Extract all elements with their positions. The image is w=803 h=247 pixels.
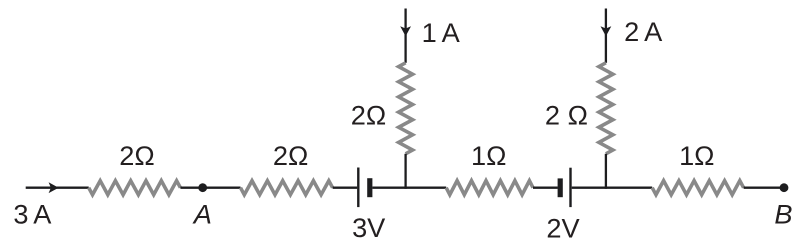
- wire input segment to R1: [26, 187, 89, 189]
- resistor R1 2Ω (horizontal zigzag): [89, 181, 181, 195]
- resistor R2 2Ω (horizontal zigzag): [241, 181, 333, 195]
- svg-text:3 A: 3 A: [13, 199, 52, 230]
- svg-text:3V: 3V: [352, 212, 386, 243]
- svg-text:A: A: [192, 199, 212, 230]
- wire V2 to R4 via branch 2 junction: [572, 187, 653, 189]
- node A junction dot: [198, 183, 207, 192]
- svg-text:2Ω: 2Ω: [351, 100, 386, 131]
- wire branch 2 resistor to main line: [605, 154, 607, 189]
- svg-text:2 Ω: 2 Ω: [545, 100, 588, 131]
- resistor R3 1Ω (horizontal zigzag): [446, 181, 533, 195]
- wire R4 to node B: [744, 187, 784, 189]
- wire branch 1 resistor to main line: [404, 154, 406, 189]
- wire R3 to battery V2: [533, 187, 558, 189]
- svg-text:B: B: [774, 199, 792, 230]
- current arrow 2 A (down-pointing arrowhead on branch 2): [601, 26, 612, 36]
- battery V2 2V positive long plate: [569, 168, 571, 207]
- svg-text:1 A: 1 A: [422, 17, 461, 48]
- resistor R4 1Ω (horizontal zigzag): [652, 181, 743, 195]
- svg-text:2 A: 2 A: [624, 16, 663, 47]
- svg-text:2Ω: 2Ω: [119, 140, 154, 171]
- resistor R5 2Ω branch 1 (vertical zigzag): [399, 63, 413, 154]
- wire branch 2 top segment: [605, 9, 607, 63]
- current arrow 1 A (down-pointing arrowhead on branch 1): [400, 26, 411, 36]
- wire branch 1 top segment: [404, 9, 406, 63]
- wire V1 to R3 via branch 1 junction: [372, 187, 446, 189]
- battery V1 3V positive long plate: [357, 168, 359, 208]
- battery V1 3V negative short thick plate: [367, 178, 372, 197]
- resistor R6 2Ω branch 2 (vertical zigzag): [599, 63, 613, 154]
- svg-text:1Ω: 1Ω: [679, 140, 714, 171]
- wire R1 to R2 through node A: [180, 187, 240, 189]
- wire R2 to battery V1: [333, 187, 358, 189]
- battery V2 2V negative short thick plate: [558, 178, 563, 197]
- svg-text:2V: 2V: [546, 212, 580, 243]
- current arrow 3 A (right-pointing arrowhead on input wire): [49, 182, 59, 193]
- svg-text:1Ω: 1Ω: [471, 140, 506, 171]
- node B terminal dot: [780, 183, 789, 192]
- svg-text:2Ω: 2Ω: [273, 140, 308, 171]
